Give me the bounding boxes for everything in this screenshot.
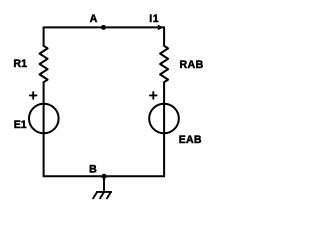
svg-text:R1: R1 (13, 58, 27, 70)
wire top (node A to loop corners) (44, 26, 165, 28)
wire bottom (through node B) (44, 175, 165, 177)
ground (93, 176, 111, 198)
source E1 (29, 104, 59, 134)
wire left upper segment (43, 27, 45, 45)
wire right upper segment (163, 27, 165, 45)
wire right lower segment (163, 82, 165, 176)
svg-text:I1: I1 (149, 13, 159, 25)
wire left lower segment (43, 82, 45, 176)
resistor RAB (160, 46, 168, 82)
node A (101, 25, 106, 30)
resistor R1 (40, 46, 48, 82)
source EAB (149, 104, 179, 134)
svg-text:A: A (90, 13, 98, 25)
svg-text:RAB: RAB (179, 59, 203, 71)
polarity + of EAB (150, 92, 157, 99)
current arrow I1 (158, 25, 164, 31)
svg-text:B: B (89, 163, 97, 175)
svg-text:EAB: EAB (179, 134, 202, 146)
polarity + of E1 (30, 92, 37, 99)
node B (102, 174, 107, 179)
svg-text:E1: E1 (14, 119, 27, 131)
